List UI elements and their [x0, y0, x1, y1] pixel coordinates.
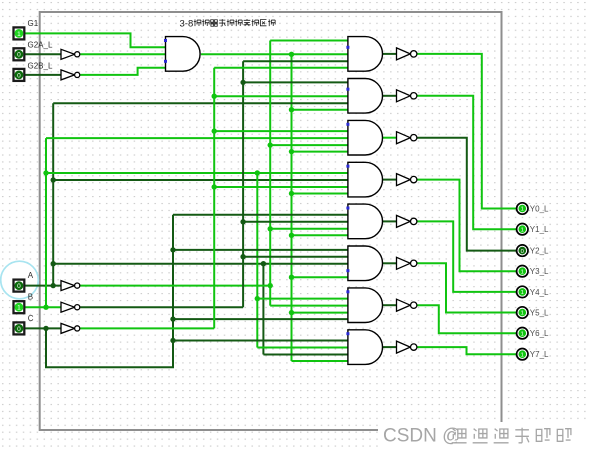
svg-text:Y3_L: Y3_L: [530, 267, 549, 276]
junction NOT-C gate4: [212, 184, 217, 189]
svg-text:0: 0: [17, 72, 21, 79]
AND gate U9 (decoder row 7): [348, 330, 383, 365]
title text 3-8 decoder sub-module region: [180, 19, 276, 30]
inverter after gate U5: [397, 174, 417, 186]
svg-text:1: 1: [521, 269, 524, 275]
junction NOT-A gate3: [268, 142, 273, 147]
AND gate U1 (enable AND, 3 inputs used): [166, 37, 201, 72]
inverter A: [61, 281, 80, 291]
wire G2B_L input to inverter: [25, 74, 61, 76]
inverter after gate U4: [397, 132, 417, 144]
svg-text:Y7_L: Y7_L: [530, 350, 549, 359]
wire A net vertical and branches: [53, 103, 348, 354]
junction NOT-B gate5: [240, 219, 245, 224]
wire NOT-A vertical and branches: [270, 41, 348, 306]
junction B at input wire: [43, 305, 48, 310]
wire gate4 output to inverter: [383, 179, 397, 181]
input connector G1 (value 1): [14, 19, 39, 39]
inverter B: [61, 302, 80, 312]
svg-text:Y4_L: Y4_L: [530, 288, 549, 297]
svg-text:Y0_L: Y0_L: [530, 205, 549, 214]
junction NOT-B gate2: [240, 80, 245, 85]
output probe Y1_L: [517, 224, 549, 235]
AND gate U8 (decoder row 6): [348, 288, 383, 323]
junction EN feed gate2: [289, 107, 294, 112]
junction EN feed gate7: [289, 310, 294, 315]
input connector G2A_L (value 0): [14, 41, 53, 61]
svg-text:Y6_L: Y6_L: [530, 329, 549, 338]
AND gate U4 (decoder row 2): [348, 120, 383, 155]
output probe Y3_L: [517, 266, 549, 277]
input connector A (value 0): [14, 271, 34, 292]
AND gate U2 (decoder row 0): [348, 37, 383, 72]
svg-text:Y2_L: Y2_L: [530, 247, 549, 256]
wire gate6 output to inverter: [383, 262, 397, 264]
svg-text:G2A_L: G2A_L: [28, 41, 53, 50]
selection highlight around input A: [1, 261, 39, 299]
unused pin marker gate1: [346, 46, 349, 49]
wire NOT-B from inverter B output: [80, 306, 243, 308]
wire inverter6 output to Y5_L: [417, 263, 517, 312]
svg-text:C: C: [28, 314, 34, 323]
junction NOT-A gate5: [268, 226, 273, 231]
wire C input to inverter: [25, 327, 61, 329]
output probe Y0_L: [517, 203, 549, 214]
svg-text:0: 0: [17, 283, 21, 290]
svg-text:A: A: [28, 271, 34, 280]
unused pin marker gate4: [346, 165, 349, 168]
junction A branch gate4: [51, 177, 56, 182]
input connector G2B_L (value 0): [14, 61, 53, 81]
wire B input to inverter: [25, 306, 61, 308]
svg-text:B: B: [28, 293, 33, 302]
svg-text:1: 1: [521, 207, 524, 213]
unused pin marker gate7: [346, 290, 349, 293]
svg-text:3-8: 3-8: [180, 19, 194, 30]
wire gate7 output to inverter: [383, 304, 397, 306]
wire gate5 output to inverter: [383, 220, 397, 222]
junction C at input wire: [43, 326, 48, 331]
inverter after gate U9: [397, 341, 417, 353]
output probe Y7_L: [517, 349, 549, 360]
junction B branch gate4: [43, 170, 48, 175]
junction B branch gate7: [255, 296, 260, 301]
svg-text:Y1_L: Y1_L: [530, 225, 549, 234]
svg-text:G2B_L: G2B_L: [28, 61, 53, 70]
junction C branch gate6: [170, 247, 175, 252]
inverter after gate U7: [397, 257, 417, 269]
unused pin marker gate2: [346, 88, 349, 91]
wire inverter7 output to Y6_L: [417, 305, 517, 333]
svg-text:Y5_L: Y5_L: [530, 309, 549, 318]
unused pin markers on AND U1: [164, 39, 167, 63]
inverter after gate U3: [397, 90, 417, 102]
wire inverter3 output to Y2_L: [417, 138, 517, 251]
input connector C (value 0): [14, 314, 34, 335]
unused pin marker gate6: [346, 269, 349, 272]
svg-text:1: 1: [521, 227, 524, 233]
input connector B (value 1): [14, 293, 34, 314]
svg-text:1: 1: [17, 31, 21, 38]
AND gate U3 (decoder row 1): [348, 79, 383, 114]
junction EN feed gate5: [289, 233, 294, 238]
wire NOT-A from inverter A output: [80, 285, 270, 287]
AND gate U7 (decoder row 5): [348, 246, 383, 281]
wire inverter1 output to Y0_L: [417, 54, 517, 209]
inverter after gate U8: [397, 299, 417, 311]
watermark CSDN: [378, 422, 590, 448]
svg-text:1: 1: [521, 290, 524, 296]
junction EN at gate1 pin3: [289, 52, 294, 57]
junction NOT-B gate6: [240, 254, 245, 259]
inverter after gate U6: [397, 215, 417, 227]
wire EN net: U1 output to gate1 pin3 and vertical bus: [201, 54, 348, 361]
inverter G2B_L: [61, 70, 80, 80]
junction A branch down to gate8: [261, 261, 266, 266]
svg-text:0: 0: [17, 326, 21, 333]
inverter G2A_L: [61, 49, 80, 59]
output probe Y6_L: [517, 328, 549, 339]
wire gate3 output to inverter: [383, 137, 397, 139]
wire inverter G2A out to AND U1 pin3: [80, 53, 165, 55]
output probe Y2_L: [517, 245, 549, 256]
junction A at input wire: [51, 283, 56, 288]
wire A input to inverter: [25, 285, 61, 287]
sub-module region frame: [40, 12, 502, 430]
wire G2A_L input to inverter: [25, 53, 61, 55]
wire inverter8 output to Y7_L: [417, 347, 517, 354]
svg-text:0: 0: [521, 249, 524, 255]
svg-text:1: 1: [521, 311, 524, 317]
wire G1 input to AND gate U1 pin2: [25, 33, 166, 47]
wire gate1 output to inverter: [383, 53, 397, 55]
wire NOT-C vertical and branches: [214, 68, 348, 329]
wire NOT-C from inverter C output: [80, 327, 214, 329]
junction NOT-C gate2: [212, 94, 217, 99]
junction EN feed gate4: [289, 191, 294, 196]
junction NOT-C gate3: [212, 128, 217, 133]
wire C net loop and branches: [46, 215, 348, 367]
AND gate U6 (decoder row 4): [348, 204, 383, 239]
junction C branch gate8: [170, 338, 175, 343]
svg-text:1: 1: [521, 352, 524, 358]
AND gate U5 (decoder row 3): [348, 162, 383, 197]
unused pin marker gate8: [346, 332, 349, 335]
svg-text:0: 0: [17, 52, 21, 59]
wire gate8 output to inverter: [383, 346, 397, 348]
wire NOT-B vertical and branches: [243, 61, 348, 307]
wire gate2 output to inverter: [383, 95, 397, 97]
wire inverter2 output to Y1_L: [417, 96, 517, 229]
junction NOT-A source: [268, 283, 273, 288]
inverter after gate U2: [397, 48, 417, 60]
wire inverter5 output to Y4_L: [417, 221, 517, 292]
junction EN feed gate6: [289, 275, 294, 280]
svg-text:1: 1: [17, 305, 21, 312]
output probe Y5_L: [517, 307, 549, 318]
junction B vertical tap: [255, 170, 260, 175]
svg-text:CSDN @: CSDN @: [383, 426, 461, 447]
wire inverter G2B out to AND U1 pin5: [80, 68, 165, 75]
junction A branch gate6: [51, 261, 56, 266]
output probe Y4_L: [517, 286, 549, 297]
junction EN feed gate3: [289, 149, 294, 154]
wire B net vertical and branches: [46, 138, 348, 347]
svg-text:G1: G1: [28, 19, 39, 28]
unused pin marker gate3: [346, 123, 349, 126]
wire inverter4 output to Y3_L: [417, 180, 517, 272]
svg-text:1: 1: [521, 331, 524, 337]
unused pin marker gate5: [346, 207, 349, 210]
junction C branch gate7: [170, 316, 175, 321]
inverter C: [61, 323, 80, 333]
